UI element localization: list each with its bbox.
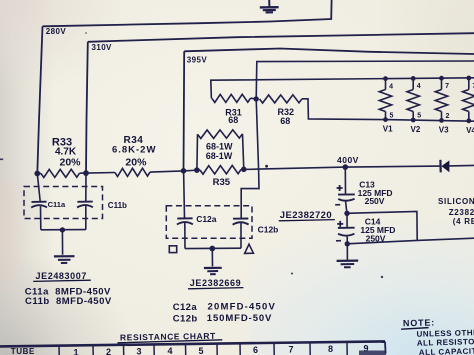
wire C11 common bottom [41,229,86,231]
tube heater V3 (resistor) [435,78,447,120]
svg-text:C12a: C12a [196,214,217,224]
resistor R32 [260,95,303,103]
svg-text:4: 4 [417,83,421,90]
diode silicon rectifier [440,160,449,173]
capacitor C14 [336,213,355,243]
node R35 right junction [241,167,247,173]
wire C12 common bottom [185,247,241,249]
svg-text:68-1W: 68-1W [206,142,233,152]
svg-text:3: 3 [136,347,141,355]
capacitor C11b [77,173,93,230]
svg-text:280V: 280V [46,27,67,36]
svg-text:20%: 20% [59,157,81,169]
node C11 bottom junction [60,227,65,232]
svg-text:400V: 400V [337,155,359,165]
label V3 pin numbers [445,83,449,120]
capacitor C12b [233,219,249,249]
capacitor C13 [335,167,355,213]
svg-text:4: 4 [167,346,172,355]
wire main bus segment (R34 to 395V node) [150,171,184,172]
svg-text:SILICON: SILICON [438,197,474,206]
wire C14 bottom to right edge [347,238,474,244]
node V1 pin (bottom) [383,117,388,122]
node 310V/bus junction [83,170,89,176]
svg-text:4: 4 [389,83,393,90]
wire 395V rail [184,49,474,171]
svg-text:C11a: C11a [48,200,66,209]
svg-text:68-1W: 68-1W [206,151,233,161]
tube heater V1 (resistor) [379,79,391,120]
resistor R35 (parallel pair 68-1W / 68-1W) [197,130,244,174]
node V2 pin (bottom) [411,118,416,123]
svg-text:7: 7 [288,345,293,355]
resistor R33 [41,169,80,177]
svg-text:395V: 395V [187,56,208,65]
tube heater V2 (resistor) [407,78,419,120]
label V2 pin numbers [417,83,421,119]
wire R31/R32 junction down to C12b (crosses bus) [241,99,259,219]
node 395V/bus junction [181,168,187,174]
svg-text:250V: 250V [365,196,385,206]
svg-text:NOTE:: NOTE: [403,317,435,328]
wire main bus segment (400V node to diode) [345,166,440,167]
label JE2382669 [188,278,243,289]
resistor R31 [212,94,251,102]
svg-text:V2: V2 [411,125,421,134]
node V3 pin (top) [439,76,444,81]
ground (C12) [204,249,222,275]
svg-text:5: 5 [198,346,203,355]
svg-text:C12b: C12b [258,225,279,235]
label SILICON Z2382 (4 RECT) [438,197,474,226]
svg-text:8: 8 [328,344,333,354]
label R35 values [206,142,233,189]
label R34 value [112,135,156,169]
node V2 pin (top) [411,76,416,81]
wire heater bottom bus (R32 to V1-V4 lower pins) [302,99,474,121]
label C14 value [360,216,395,243]
svg-text:TUBE: TUBE [11,347,35,355]
ground (C14) [337,244,359,267]
label C13 value [358,179,393,206]
svg-text:150MFD-50V: 150MFD-50V [207,313,272,324]
svg-text:V3: V3 [439,125,449,134]
svg-text:R35: R35 [213,177,231,188]
note text [401,316,474,355]
wire main bus segment (R35 to 400V node) [241,167,345,169]
label R32 value [278,107,295,126]
svg-text:68: 68 [280,116,290,126]
node C14 bottom junction [345,241,350,246]
photo specks [0,32,383,278]
svg-text:6.8K-2W: 6.8K-2W [112,145,156,156]
svg-text:C11b 8MFD-450V: C11b 8MFD-450V [25,296,112,307]
capacitor C11a [31,174,47,230]
svg-text:1: 1 [73,348,78,355]
wire 280V rail (top run and left drop) [37,0,331,174]
svg-text:JE2483007: JE2483007 [36,271,87,281]
dashed box C12 [166,206,252,239]
label JE2382720 [279,210,335,221]
wire 310V rail [86,33,474,173]
svg-text:JE2382669: JE2382669 [190,278,241,288]
node C13/C14 junction [344,211,349,216]
svg-text:2: 2 [446,113,450,120]
wire diode anode to right edge [449,164,474,167]
node V1 pin (top) [383,76,388,81]
svg-text:C11b: C11b [108,201,127,210]
svg-text:ALL CAPACITO: ALL CAPACITO [419,346,474,355]
node V4 pin (bottom) [466,118,471,123]
node 280V/bus junction [34,171,40,177]
tube heater V4 (resistor) [463,78,474,121]
resistance chart table [0,341,386,355]
svg-text:C12a: C12a [173,302,198,313]
svg-text:C12b: C12b [173,313,198,324]
wire heater supply (R31/R32 junction up to top-right run) [256,61,474,99]
wire heater top bus (to V1-V4 pins) [211,78,474,99]
node R35 left junction [194,167,200,173]
square terminal [169,246,176,253]
node V3 pin (bottom) [439,118,444,123]
wire main bus segment (310V node to R34) [86,172,115,175]
triangle terminal [245,244,254,253]
label C12a value [173,302,276,314]
svg-text:V1: V1 [383,125,393,134]
resistor R34 [115,168,150,176]
svg-text:20MFD-450V: 20MFD-450V [208,302,277,313]
ground (C11) [54,230,75,263]
dashed box C11 [24,187,103,219]
svg-text:20%: 20% [125,156,147,168]
node artifact dot near bus [265,165,268,168]
label V4 pin numbers [472,83,474,90]
label JE2483007 [33,271,91,282]
capacitor C12a [177,171,193,249]
svg-text:(4 RE: (4 RE [453,217,474,226]
svg-text:6: 6 [253,345,258,355]
svg-text:V4: V4 [466,126,474,135]
svg-text:7: 7 [445,83,449,90]
svg-text:68: 68 [228,115,238,125]
node C12 bottom junction [209,246,215,252]
svg-text:310V: 310V [92,43,113,52]
ground (top edge, above 280V wire) [260,0,279,12]
label RESISTANCE CHART [117,331,222,343]
svg-text:5: 5 [417,113,421,120]
node V4 pin (top) [466,76,471,81]
node 400V junction [343,164,349,170]
node R31/R32 junction [254,96,259,101]
label R33 value [52,137,81,169]
label C12b value [173,313,272,325]
wire C13/C14 junction to rectifier stack [347,211,417,240]
svg-text:5: 5 [390,112,394,119]
wire main bus segment (395V node to R35) [184,169,201,172]
label V1 pin numbers [389,83,393,119]
label R31 value [225,108,242,126]
svg-text:2: 2 [106,347,111,355]
